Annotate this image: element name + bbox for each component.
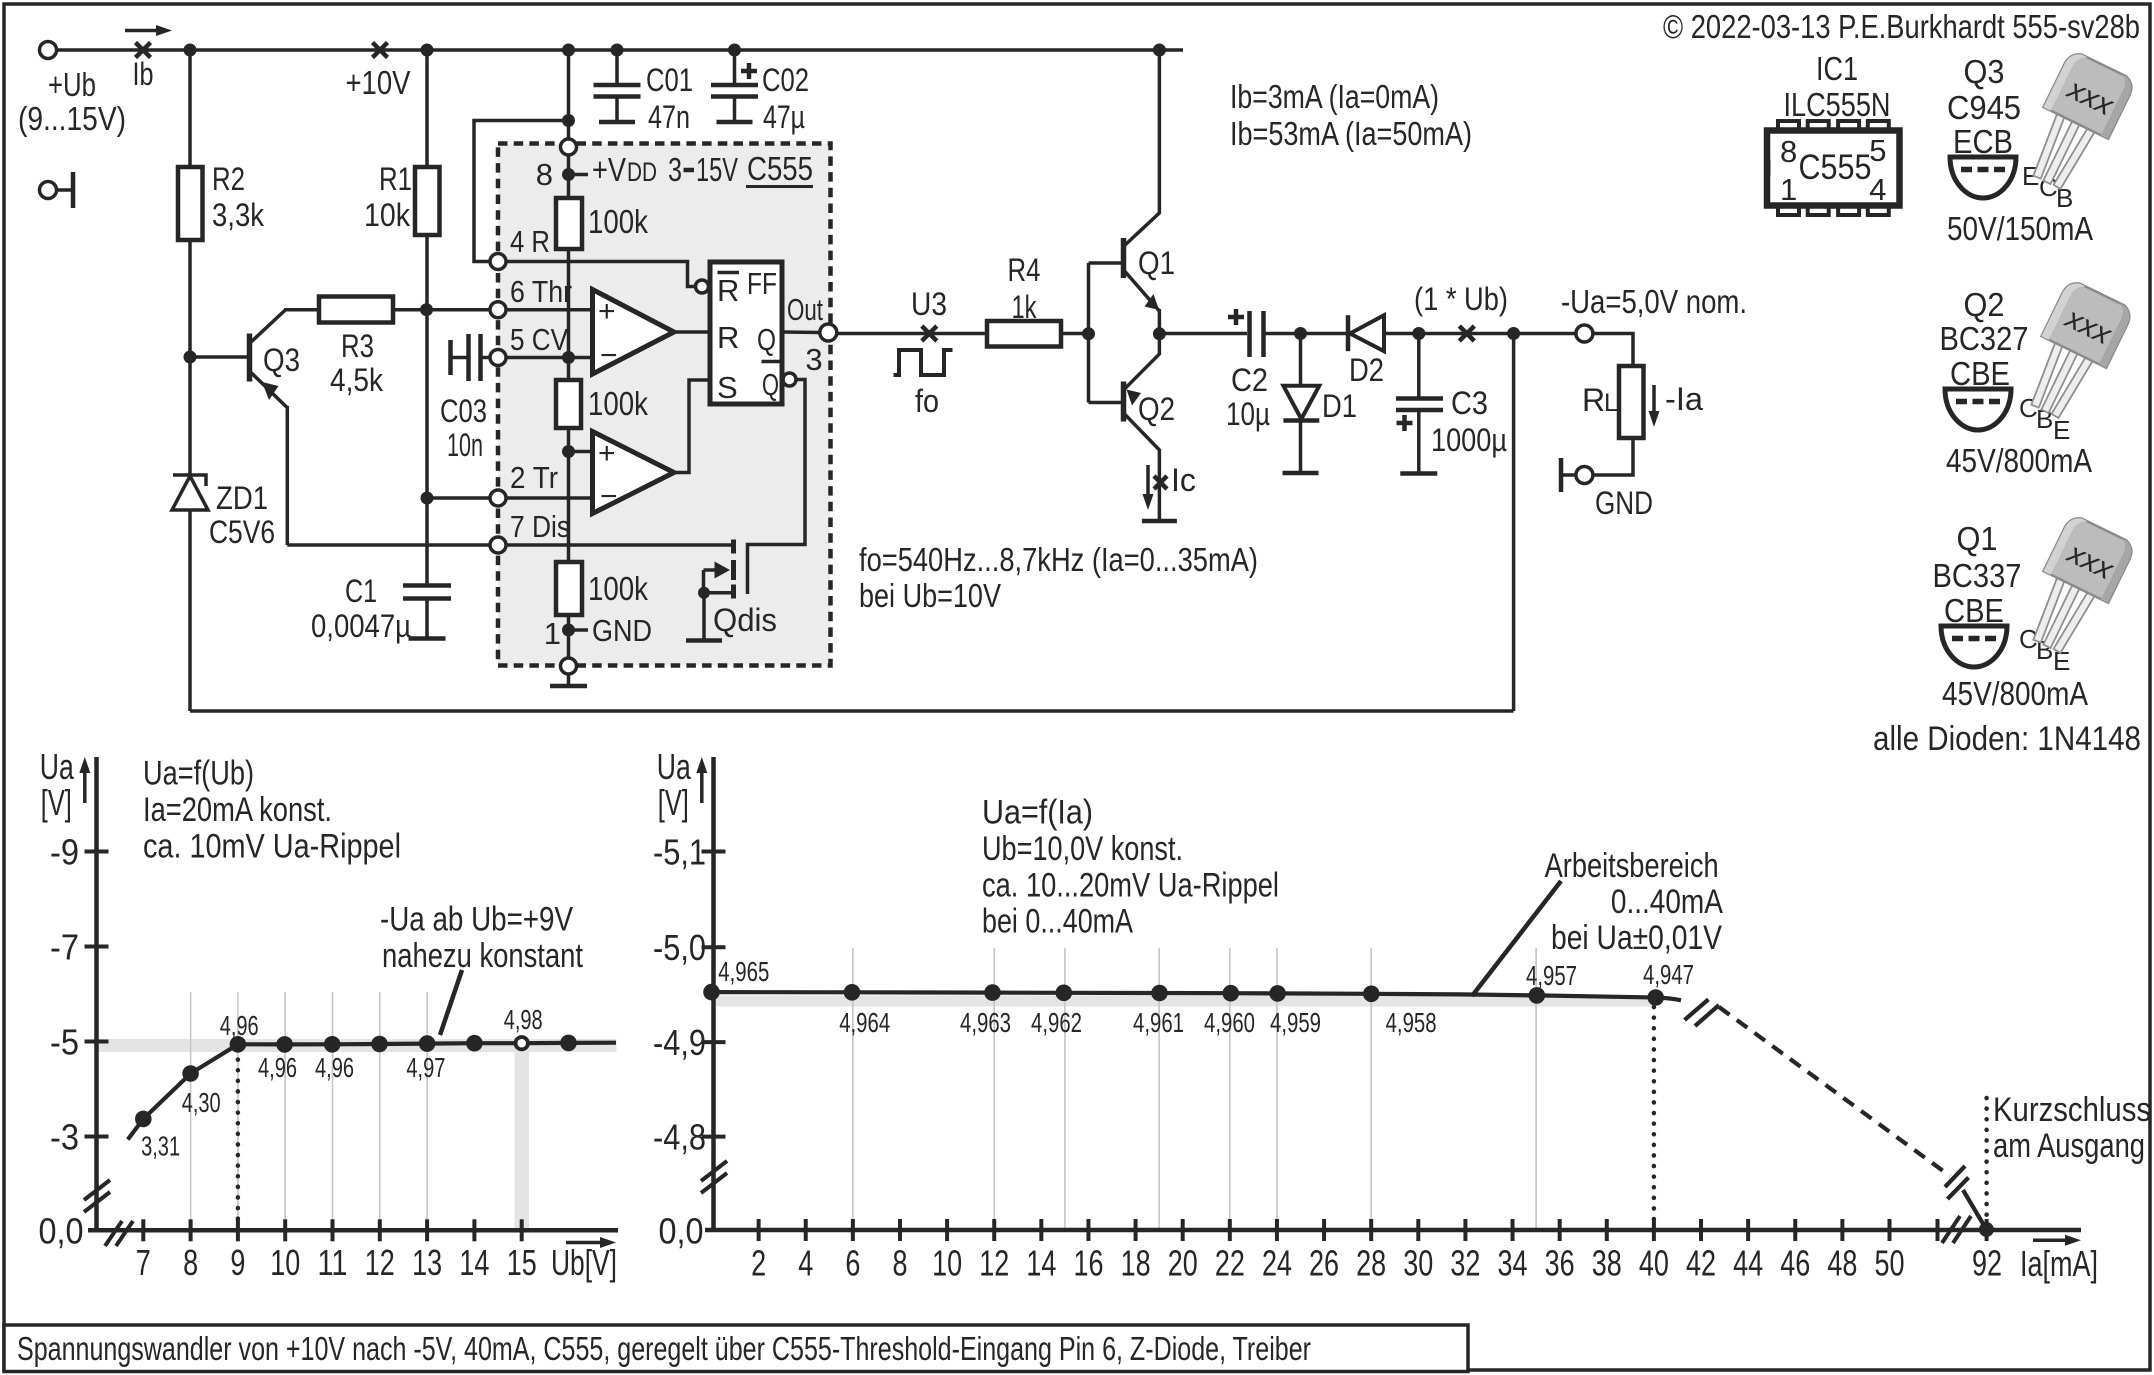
svg-text:[V]: [V]	[658, 782, 689, 823]
zener diode ZD1	[173, 475, 206, 486]
left graph y ticks	[85, 850, 109, 854]
svg-text:12: 12	[365, 1242, 395, 1283]
svg-text:40: 40	[1639, 1243, 1669, 1284]
left graph annotation line	[440, 970, 462, 1035]
svg-text:28: 28	[1356, 1243, 1386, 1284]
pin 2 Tr	[490, 490, 506, 506]
wire R2 top	[188, 50, 192, 167]
svg-text:Ia=20mA konst.: Ia=20mA konst.	[143, 791, 332, 829]
svg-text:D1: D1	[1322, 388, 1357, 424]
transistor Qdis	[731, 540, 736, 554]
svg-text:ILC555N: ILC555N	[1784, 86, 1891, 123]
diode D1	[1299, 334, 1303, 387]
svg-text:C5V6: C5V6	[209, 514, 275, 550]
right graph curve flat	[712, 992, 1682, 1000]
right graph gray band	[714, 996, 1655, 1007]
wire +Ub top rail	[57, 48, 1184, 52]
wire pin6 to comparator	[507, 308, 593, 312]
wire R3 to node	[393, 308, 427, 312]
wire Q1 emitter to node	[1158, 309, 1162, 334]
pin 6 Thr	[490, 302, 506, 318]
wire FF Q to Out pin	[782, 330, 820, 334]
svg-text:C2: C2	[1231, 362, 1268, 398]
svg-text:Q2: Q2	[1138, 391, 1175, 427]
left graph dotted line Ub=9	[236, 1049, 241, 1230]
svg-text:+: +	[598, 295, 616, 328]
svg-text:14: 14	[459, 1242, 489, 1283]
svg-text:7 Dis: 7 Dis	[510, 509, 570, 544]
svg-text:4,96: 4,96	[220, 1010, 259, 1041]
node Thr	[420, 303, 433, 316]
-Ia arrow	[1652, 385, 1656, 415]
svg-text:Q3: Q3	[263, 342, 300, 378]
svg-text:3: 3	[668, 151, 682, 188]
left graph y arrow Ua	[83, 769, 87, 803]
IC1 DIP-8 package drawing	[1778, 121, 1799, 133]
node Q3 base	[184, 351, 197, 364]
node comparator2 plus	[562, 445, 575, 458]
node Tr	[421, 492, 434, 505]
svg-text:16: 16	[1073, 1243, 1103, 1284]
terminal -Ua	[1576, 325, 1593, 342]
svg-text:−: −	[600, 339, 618, 372]
C02 plus sign	[741, 69, 757, 74]
wire D2 to C3 node	[1384, 332, 1419, 336]
svg-text:BC327: BC327	[1940, 320, 2029, 357]
svg-text:3,3k: 3,3k	[212, 197, 265, 233]
svg-text:32: 32	[1450, 1243, 1480, 1284]
transistor Q1	[1121, 238, 1127, 278]
svg-text:4 R: 4 R	[510, 224, 550, 259]
svg-text:GND: GND	[1595, 485, 1653, 521]
svg-text:alle Dioden: 1N4148: alle Dioden: 1N4148	[1873, 720, 2141, 758]
transistor Q3	[247, 334, 253, 382]
wire Tr column to C1	[425, 498, 429, 586]
flip-flop FF box	[710, 262, 782, 404]
wire C3 node to -Ua terminal	[1419, 332, 1576, 336]
svg-text:U3: U3	[911, 286, 947, 322]
title box	[4, 1325, 1468, 1372]
svg-text:D2: D2	[1349, 352, 1384, 388]
svg-text:-9: -9	[50, 832, 79, 873]
svg-text:[V]: [V]	[41, 782, 72, 823]
svg-text:50: 50	[1875, 1243, 1905, 1284]
svg-text:4,30: 4,30	[182, 1087, 221, 1118]
svg-text:4,959: 4,959	[1270, 1007, 1321, 1038]
svg-text:DD: DD	[627, 157, 657, 187]
resistor R4	[987, 321, 1061, 347]
svg-text:0,0047µ: 0,0047µ	[311, 608, 411, 644]
svg-text:4,958: 4,958	[1386, 1007, 1437, 1038]
svg-text:-4,9: -4,9	[653, 1022, 706, 1063]
left graph gray band -5V	[97, 1039, 617, 1052]
node C3	[1412, 327, 1425, 340]
U3 measuring point marker	[922, 326, 937, 341]
wire Q3 base	[190, 355, 247, 359]
wire Q2 collector to ground	[1158, 449, 1162, 521]
svg-text:0,0: 0,0	[39, 1211, 84, 1252]
svg-text:9: 9	[230, 1242, 245, 1283]
wire bottom rail	[190, 709, 1514, 713]
svg-text:4,962: 4,962	[1031, 1007, 1082, 1038]
svg-text:26: 26	[1309, 1243, 1339, 1284]
svg-text:L: L	[1604, 389, 1618, 417]
resistor R1	[415, 167, 440, 235]
Ic measuring marker	[1154, 476, 1167, 489]
left graph x ticks	[141, 1219, 145, 1241]
svg-text:GND: GND	[592, 613, 652, 648]
wire R1 to Thr node	[425, 235, 429, 310]
terminal GND	[1576, 467, 1593, 484]
terminal -Ub input	[40, 182, 57, 199]
terminal +Ub	[40, 42, 57, 59]
svg-text:C555: C555	[1799, 148, 1872, 187]
svg-text:3,31: 3,31	[141, 1130, 180, 1161]
svg-text:4: 4	[1869, 172, 1886, 207]
transistor Q2	[1121, 382, 1127, 422]
Ic arrow	[1146, 465, 1150, 498]
svg-text:18: 18	[1121, 1243, 1151, 1284]
svg-text:© 2022-03-13 P.E.Burkhardt 555: © 2022-03-13 P.E.Burkhardt 555-sv28b	[1663, 8, 2140, 45]
svg-text:1000µ: 1000µ	[1431, 422, 1507, 458]
svg-text:20: 20	[1168, 1243, 1198, 1284]
right graph 92 tick	[1985, 1219, 1989, 1241]
svg-text:-5,1: -5,1	[653, 832, 706, 873]
svg-text:Ib: Ib	[133, 56, 154, 92]
FF Q-bar output bubble	[783, 373, 796, 386]
svg-text:Ic: Ic	[1171, 462, 1196, 498]
resistor RL	[1619, 366, 1644, 438]
svg-text:-4,8: -4,8	[653, 1117, 706, 1158]
pin 3 Out	[820, 324, 837, 341]
left graph y axis	[94, 757, 99, 1232]
svg-text:38: 38	[1592, 1243, 1622, 1284]
svg-text:+: +	[598, 437, 616, 470]
svg-text:C945: C945	[1947, 89, 2021, 126]
svg-text:36: 36	[1545, 1243, 1575, 1284]
svg-text:30: 30	[1403, 1243, 1433, 1284]
wire Tr to pin2	[427, 496, 490, 500]
svg-text:CBE: CBE	[1950, 355, 2010, 392]
svg-text:R4: R4	[1008, 252, 1041, 288]
svg-text:fo=540Hz...8,7kHz (Ia=0...35mA: fo=540Hz...8,7kHz (Ia=0...35mA)	[859, 541, 1258, 578]
svg-text:48: 48	[1827, 1243, 1857, 1284]
svg-text:7: 7	[136, 1242, 151, 1283]
svg-text:10n: 10n	[447, 427, 483, 463]
node D1	[1294, 327, 1307, 340]
svg-text:bei Ua±0,01V: bei Ua±0,01V	[1551, 919, 1722, 957]
svg-text:am Ausgang: am Ausgang	[1993, 1127, 2145, 1165]
svg-text:3: 3	[805, 342, 822, 377]
right graph end data point	[1979, 1222, 1994, 1237]
svg-text:Ub[V]: Ub[V]	[551, 1242, 617, 1283]
wire -Ua to RL	[1593, 334, 1633, 367]
svg-text:Ua=f(Ia): Ua=f(Ia)	[982, 794, 1093, 832]
svg-text:15: 15	[507, 1242, 537, 1283]
wire Q-bar to Qdis gate	[748, 380, 806, 595]
svg-text:ca. 10mV Ua-Rippel: ca. 10mV Ua-Rippel	[143, 828, 401, 866]
right graph x axis	[705, 1228, 2081, 1233]
left graph data points	[135, 1111, 152, 1128]
svg-text:1k: 1k	[1012, 289, 1038, 325]
svg-text:5: 5	[1869, 133, 1886, 168]
svg-text:C1: C1	[345, 573, 377, 609]
wire R2 to ZD1	[188, 240, 192, 475]
svg-text:4,960: 4,960	[1204, 1007, 1255, 1038]
svg-text:4,98: 4,98	[504, 1004, 543, 1035]
pin 8 +VDD	[561, 139, 577, 155]
svg-text:-5,0: -5,0	[653, 927, 706, 968]
wire C2 to D1 node	[1264, 332, 1301, 336]
svg-text:(1 * Ub): (1 * Ub)	[1414, 281, 1508, 317]
svg-text:8: 8	[1780, 134, 1797, 169]
svg-text:(9...15V): (9...15V)	[18, 100, 126, 137]
IC C555 dashed box	[498, 144, 831, 666]
svg-text:10k: 10k	[364, 197, 411, 233]
node top rail pin8 column	[562, 44, 575, 57]
svg-text:0,0: 0,0	[659, 1211, 704, 1252]
pin 5 CV	[490, 350, 506, 366]
svg-text:8: 8	[892, 1243, 907, 1284]
diode D2	[1346, 315, 1351, 351]
svg-text:4,947: 4,947	[1643, 959, 1694, 990]
svg-text:6: 6	[845, 1243, 860, 1284]
svg-text:4,5k: 4,5k	[330, 362, 384, 398]
ground below pin1	[567, 674, 571, 686]
svg-text:R2: R2	[212, 161, 245, 197]
svg-text:C555: C555	[747, 150, 813, 187]
wire D1 node to D2	[1301, 332, 1349, 336]
svg-text:15V: 15V	[696, 151, 738, 188]
node top rail C02	[728, 44, 741, 57]
right graph x ticks	[757, 1219, 761, 1241]
svg-text:50V/150mA: 50V/150mA	[1947, 210, 2093, 247]
square wave symbol fo	[894, 350, 953, 375]
wire R4 to base node	[1061, 332, 1089, 336]
wire Out to R4	[837, 332, 988, 336]
svg-text:Q1: Q1	[1957, 520, 1998, 557]
right graph y arrow Ua	[700, 769, 704, 803]
capacitor C01	[615, 50, 619, 85]
svg-text:-5: -5	[50, 1022, 79, 1063]
svg-text:24: 24	[1262, 1243, 1292, 1284]
node top rail R1	[421, 44, 434, 57]
svg-text:13: 13	[412, 1242, 442, 1283]
svg-text:ZD1: ZD1	[216, 480, 268, 516]
right graph annotation line	[1472, 881, 1561, 996]
node top rail R2	[184, 44, 197, 57]
wire pin4 to FF R bubble	[507, 262, 695, 287]
svg-text:4,96: 4,96	[258, 1052, 297, 1083]
svg-text:Q3: Q3	[1964, 53, 2005, 90]
capacitor C1	[403, 583, 451, 588]
+10V measuring point marker	[373, 43, 388, 58]
wire Q2 emitter	[1158, 334, 1162, 355]
svg-text:Out: Out	[787, 292, 823, 327]
svg-text:Ib=53mA (Ia=50mA): Ib=53mA (Ia=50mA)	[1230, 115, 1472, 152]
capacitor C2 polarized	[1247, 311, 1252, 357]
svg-text:Ib=3mA (Ia=0mA): Ib=3mA (Ia=0mA)	[1230, 78, 1439, 115]
right graph second curve break	[1945, 1166, 1965, 1187]
left graph x axis	[88, 1228, 618, 1233]
svg-text:FF: FF	[747, 266, 777, 301]
svg-text:ca. 10...20mV Ua-Rippel: ca. 10...20mV Ua-Rippel	[982, 867, 1279, 905]
node Q1 Q2 bases	[1082, 327, 1095, 340]
resistor R3	[319, 297, 393, 323]
svg-text:Kurzschluss: Kurzschluss	[1993, 1091, 2151, 1129]
svg-text:4: 4	[798, 1243, 813, 1284]
left graph open point 15V	[516, 1037, 528, 1049]
wire pin7 discharge	[287, 543, 490, 547]
svg-text:Qdis: Qdis	[713, 602, 777, 638]
svg-text:45V/800mA: 45V/800mA	[1942, 675, 2088, 712]
svg-text:R3: R3	[341, 328, 374, 364]
svg-text:C03: C03	[440, 393, 487, 429]
left graph gridlines	[190, 992, 192, 1230]
wire pin4 loop to rail	[474, 121, 569, 262]
svg-text:2: 2	[751, 1243, 766, 1284]
svg-text:100k: 100k	[588, 385, 648, 422]
svg-text:Ua: Ua	[657, 746, 692, 787]
pin 1 GND	[561, 658, 577, 674]
svg-text:-3: -3	[50, 1117, 79, 1158]
left graph axis breaks	[84, 1192, 110, 1212]
svg-text:4,961: 4,961	[1133, 1007, 1184, 1038]
node output emitters	[1153, 327, 1166, 340]
svg-text:46: 46	[1780, 1243, 1810, 1284]
right graph y ticks	[702, 850, 726, 854]
svg-text:Ua=f(Ub): Ua=f(Ub)	[143, 755, 254, 793]
svg-text:Ua: Ua	[40, 746, 75, 787]
svg-text:4,957: 4,957	[1526, 960, 1577, 991]
svg-text:+10V: +10V	[346, 64, 411, 101]
svg-text:14: 14	[1026, 1243, 1056, 1284]
wire Q3 emitter down	[286, 406, 290, 545]
wire pin2 to comparator	[507, 496, 593, 500]
svg-text:IC1: IC1	[1816, 50, 1858, 87]
svg-text:47n: 47n	[648, 99, 690, 135]
svg-text:6 Thr: 6 Thr	[510, 274, 572, 309]
svg-text:1: 1	[544, 616, 561, 651]
svg-text:45V/800mA: 45V/800mA	[1946, 442, 2092, 479]
wire -Ua column to bottom rail	[1512, 334, 1516, 712]
svg-text:Spannungswandler von +10V nach: Spannungswandler von +10V nach -5V, 40mA…	[17, 1330, 1311, 1367]
right graph dotted line 40mA	[1652, 1007, 1657, 1230]
svg-text:Ub=10,0V konst.: Ub=10,0V konst.	[982, 830, 1183, 868]
svg-text:34: 34	[1498, 1243, 1528, 1284]
svg-text:4,963: 4,963	[960, 1007, 1011, 1038]
right graph gridlines	[852, 948, 854, 1230]
svg-text:S: S	[717, 370, 738, 405]
svg-text:5 CV: 5 CV	[510, 322, 568, 357]
svg-text:-Ua ab Ub=+9V: -Ua ab Ub=+9V	[380, 901, 573, 939]
svg-text:2 Tr: 2 Tr	[510, 460, 558, 495]
svg-text:nahezu konstant: nahezu konstant	[382, 937, 583, 975]
svg-text:R: R	[1582, 382, 1605, 418]
node -Ua column	[1507, 327, 1520, 340]
svg-text:C3: C3	[1451, 385, 1488, 421]
Ib measuring point marker	[136, 43, 151, 58]
svg-text:C02: C02	[762, 62, 809, 98]
wire Q3 collector to R3	[284, 308, 320, 312]
wire Thr column down	[425, 310, 429, 498]
FF R-bar input bubble	[696, 280, 709, 293]
left graph x arrow	[566, 1241, 606, 1245]
op-amp comparator 1	[593, 290, 675, 375]
(1*Ub) measuring marker	[1459, 326, 1474, 341]
svg-text:E: E	[2053, 415, 2070, 445]
Ib current arrow	[125, 29, 162, 33]
svg-text:Q: Q	[762, 367, 779, 402]
svg-text:92: 92	[1972, 1243, 2002, 1284]
svg-text:12: 12	[979, 1243, 1009, 1284]
svg-text:Arbeitsbereich: Arbeitsbereich	[1545, 847, 1719, 885]
svg-text:-7: -7	[50, 927, 79, 968]
svg-text:4,965: 4,965	[718, 956, 769, 987]
svg-text:4,964: 4,964	[839, 1007, 890, 1038]
svg-text:+V: +V	[592, 151, 626, 188]
svg-text:0...40mA: 0...40mA	[1611, 883, 1723, 921]
pin 4 R	[490, 254, 506, 270]
svg-text:10µ: 10µ	[1226, 396, 1270, 432]
capacitor C3 polarized	[1417, 334, 1421, 399]
svg-text:22: 22	[1215, 1243, 1245, 1284]
svg-text:4,96: 4,96	[315, 1052, 354, 1083]
svg-text:8: 8	[536, 157, 553, 192]
resistor 100k top	[556, 198, 582, 249]
node CV resistor chain	[562, 351, 575, 364]
svg-text:4,97: 4,97	[406, 1052, 445, 1083]
wire comp2 to FF S	[674, 380, 710, 473]
svg-text:R1: R1	[379, 161, 412, 197]
svg-text:11: 11	[318, 1242, 348, 1283]
capacitor C02 polarized	[733, 50, 737, 85]
wire base rail	[1087, 263, 1091, 403]
right graph curve break	[1685, 999, 1709, 1020]
svg-text:BC337: BC337	[1933, 557, 2022, 594]
wire emitters to C2	[1159, 332, 1247, 336]
svg-text:Ia[mA]: Ia[mA]	[2020, 1243, 2098, 1284]
op-amp comparator 2	[593, 432, 675, 514]
resistor R2	[178, 167, 203, 240]
svg-text:bei Ub=10V: bei Ub=10V	[859, 577, 1001, 614]
svg-text:100k: 100k	[588, 203, 648, 240]
svg-text:fo: fo	[915, 383, 939, 419]
svg-text:R: R	[717, 320, 739, 355]
pin 7 Dis	[490, 537, 506, 553]
wire Thr to pin6	[427, 308, 490, 312]
svg-text:+Ub: +Ub	[48, 66, 96, 103]
right graph x axis break	[1936, 1219, 1940, 1241]
right graph y axis	[711, 757, 716, 1232]
left graph gray band 15V	[515, 1045, 530, 1230]
svg-text:100k: 100k	[588, 570, 648, 607]
right graph curve dashed segment	[1719, 1007, 1950, 1176]
resistor 100k bottom	[556, 562, 582, 615]
right graph x arrow	[2033, 1239, 2071, 1243]
right graph curve end segment	[1963, 1190, 1986, 1230]
resistor 100k middle	[556, 380, 581, 428]
node top rail C01	[611, 44, 624, 57]
svg-text:−: −	[600, 480, 618, 513]
svg-text:-Ua=5,0V nom.: -Ua=5,0V nom.	[1561, 283, 1747, 320]
svg-text:R: R	[717, 273, 739, 308]
svg-text:47µ: 47µ	[763, 99, 805, 135]
wire RL to GND terminal	[1593, 438, 1633, 475]
wire pin5 to comparator	[507, 356, 593, 360]
svg-text:bei 0...40mA: bei 0...40mA	[982, 903, 1133, 941]
svg-text:42: 42	[1686, 1243, 1716, 1284]
